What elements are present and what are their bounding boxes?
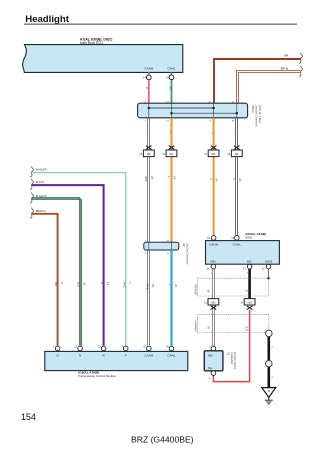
pin circle CANH [147, 75, 152, 80]
J1 internal pass-through wires [149, 103, 237, 118]
svg-text:W-G(A/T): W-G(A/T) [36, 168, 48, 172]
ECM U3 band [206, 241, 280, 265]
inline connector IE1 on W-B wire [140, 146, 155, 157]
wire W-G(A/T) light green to TCM P [30, 166, 132, 345]
J2 pin numbers [145, 240, 170, 255]
ECM U3 label: A23(A), A24(B) ECM [245, 232, 266, 240]
pin circle CANH overlay [147, 75, 152, 80]
wire code labels below row-1 connectors [144, 176, 242, 182]
svg-text:B-R: B-R [245, 327, 249, 332]
wire W-B (gray double) J1 to TCM CANH [147, 118, 150, 346]
svg-text:Transmission Control Module: Transmission Control Module [78, 374, 116, 378]
wire B-G(A/T) dark green double to TCM N [30, 193, 86, 346]
wire BR (brown) from off-page right to junction connector [214, 53, 302, 103]
wire G (green) Main Body ECU CANL to junction connector [168, 72, 172, 103]
wire P (pink) Main Body ECU CANH to junction connector [146, 72, 150, 103]
inline connector IE1 on maroon wire [228, 146, 243, 157]
svg-text:CANL: CANL [167, 354, 176, 358]
svg-text:N: N [79, 354, 81, 358]
svg-text:33: 33 [238, 178, 242, 182]
svg-text:21: 21 [82, 282, 86, 286]
svg-text:NE-: NE- [247, 260, 252, 264]
svg-text:G(A/T): G(A/T) [36, 180, 44, 184]
wire shield drain ECM SLE3 [267, 269, 269, 280]
J1 side label (M) Junction Connector [251, 105, 261, 127]
svg-text:A61: A61 [247, 300, 252, 304]
ECM bottom pin labels [210, 260, 272, 264]
svg-text:ECM: ECM [245, 235, 252, 239]
svg-text:CANH: CANH [144, 354, 153, 358]
svg-text:CANH: CANH [209, 242, 218, 246]
svg-text:IE1: IE1 [147, 152, 151, 156]
svg-text:(Shielded): (Shielded) [194, 320, 197, 331]
sensor side label C9 Crankshaft Position Sensor [227, 352, 237, 370]
junction connector J1 band [138, 103, 248, 118]
J1 pin numbers [145, 101, 235, 122]
svg-text:(Shielded): (Shielded) [194, 284, 197, 295]
shield box 2 (Shielded) [194, 315, 269, 333]
svg-text:P: P [125, 354, 127, 358]
svg-text:24: 24 [173, 176, 177, 180]
svg-text:CANL: CANL [233, 242, 242, 246]
svg-text:BR(A/T): BR(A/T) [36, 209, 46, 213]
svg-text:34: 34 [215, 178, 219, 182]
svg-text:(CAN No.1 Bus): (CAN No.1 Bus) [258, 105, 261, 123]
svg-text:B: B [245, 290, 249, 292]
svg-text:Junction Connector: Junction Connector [255, 105, 258, 127]
svg-text:NE+: NE+ [210, 260, 216, 264]
inline connector A61 on NE- wire [240, 299, 255, 310]
wire BR-W (white w/ brown stripe) from off-page right to junction connector [237, 66, 303, 103]
svg-text:25: 25 [150, 176, 154, 180]
wire BR-Y (maroon double) J1 to ECM CANL [235, 118, 238, 236]
ECU U1 Main Body ECU band [23, 45, 183, 73]
wire OR (orange) J1 to junction connector J2 [169, 118, 172, 242]
svg-text:SLE3: SLE3 [265, 260, 273, 264]
pin circle CANL [169, 75, 174, 80]
wire BR(A/T) brown to TCM D [30, 208, 64, 346]
ECU U1 label: A7(A), D3(B), D6(C) Main Body ECU [80, 38, 112, 45]
svg-text:IE1: IE1 [235, 152, 239, 156]
svg-text:Junction Connector: Junction Connector [185, 243, 188, 265]
svg-text:CANH: CANH [144, 66, 153, 70]
svg-text:Crankshaft: Crankshaft [230, 352, 233, 364]
title Headlight [24, 14, 297, 25]
svg-text:IE1: IE1 [170, 152, 174, 156]
svg-text:W-B: W-B [144, 176, 148, 182]
pin circle CANL overlay [169, 75, 174, 80]
ground symbol [262, 388, 276, 404]
wire G(A/T) purple to TCM R [30, 179, 110, 346]
svg-text:24: 24 [174, 284, 178, 288]
svg-text:CANL: CANL [167, 66, 176, 70]
inline connector A61 on NE+ wire [204, 299, 219, 310]
svg-text:W-G: W-G [122, 282, 126, 289]
wire W-B (gray double) J2 to TCM CANH [145, 284, 155, 290]
J1 internal CANH bus bar [148, 107, 215, 109]
ECM top pin circles CANH CANL [207, 236, 239, 241]
svg-text:B-G: B-G [77, 282, 81, 288]
svg-text:Headlight: Headlight [25, 14, 70, 25]
inline connector IE1 on orange wire (left) [162, 146, 177, 157]
junction connector J2 band [144, 242, 179, 250]
svg-text:NE+: NE+ [208, 353, 214, 357]
svg-text:A61: A61 [211, 300, 216, 304]
svg-text:BR: BR [285, 54, 289, 58]
svg-text:B-G(A/T): B-G(A/T) [36, 194, 47, 198]
wire W (white double) ECM NE+ down to sensor [211, 269, 215, 346]
sensor C9 Crankshaft Position Sensor box [204, 351, 223, 371]
svg-text:25: 25 [151, 284, 155, 288]
ECM top pin labels [209, 242, 241, 246]
TCM pin circles row [55, 346, 174, 351]
sensor pin 1 circle [209, 346, 216, 351]
TCM pin name labels [56, 354, 175, 358]
svg-text:BRZ (G4400BE): BRZ (G4400BE) [131, 434, 194, 444]
svg-text:13: 13 [106, 282, 110, 286]
sensor pin 2 circle [209, 371, 216, 380]
svg-text:A67: A67 [182, 243, 185, 248]
TCM pin numbers [53, 345, 169, 348]
svg-text:IE1: IE1 [212, 152, 216, 156]
wire L (light blue) J2 to TCM CANL [168, 250, 178, 346]
J2 side label Junction Connector [182, 243, 188, 265]
svg-text:NE-: NE- [208, 366, 213, 370]
wire OR (orange) J1 to ECM CANH [211, 118, 213, 236]
shield drain wire to ground circles [266, 330, 274, 388]
svg-text:B: B [146, 87, 150, 89]
J1 internal CANL bus bar [170, 112, 238, 114]
svg-text:Position Sensor: Position Sensor [233, 352, 236, 370]
ECM bottom pin circles [207, 264, 271, 270]
svg-text:W-B: W-B [145, 284, 149, 290]
shield box 1 (Shielded) [194, 278, 268, 296]
svg-text:BR: BR [54, 282, 58, 286]
TCM U2 band Transmission Control Module [45, 351, 188, 370]
svg-text:154: 154 [21, 412, 36, 422]
wire B (black thick) ECM NE- down to inline connector [247, 269, 250, 299]
inline connector IE1 on orange wire (right) [204, 146, 219, 157]
svg-text:A65(A): A65(A) [251, 105, 254, 113]
wire R (red) inline connector to sensor NE- [213, 310, 249, 382]
TCM label: A16(A), A19(B) Transmission Control Module [78, 370, 116, 378]
svg-text:BR-W: BR-W [281, 67, 289, 71]
